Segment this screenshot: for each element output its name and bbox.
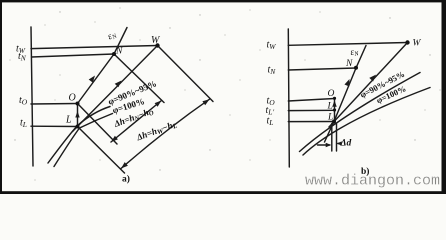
enthalpy line h_O from O [78, 104, 118, 145]
vertical line L to O [77, 104, 79, 127]
phi 90-95 curve (b) [300, 73, 421, 152]
wire t_W isotherm line to W [31, 46, 158, 49]
wire t_O isotherm line to O [31, 103, 78, 106]
point N dot (b) [354, 66, 358, 70]
delta-d right arrowhead [337, 141, 342, 145]
svg-text:tL: tL [267, 116, 274, 128]
dimension line dh=hW-hL [121, 99, 210, 168]
scan noise dots [9, 7, 440, 180]
svg-text:tN: tN [18, 51, 27, 63]
svg-text:tN: tN [268, 65, 277, 77]
arrowhead dim2 left [121, 162, 128, 168]
point O dot (b) [333, 97, 336, 100]
svg-text:www.diangon.com: www.diangon.com [305, 173, 440, 190]
wire W to L line [73, 46, 158, 132]
enthalpy line h_W from W [158, 46, 214, 102]
svg-text:L: L [327, 113, 333, 123]
svg-text:N: N [345, 59, 353, 69]
axis (vertical d-axis, diagram b) [288, 29, 289, 167]
delta-d right vertical [336, 124, 338, 152]
svg-text:L': L' [327, 102, 336, 112]
delta-d right arrow shaft [338, 143, 341, 145]
wire t_L' isotherm line to L' (b) [288, 109, 334, 111]
wire t_L isotherm line to L [31, 125, 78, 127]
delta-d left arrowhead [326, 143, 332, 147]
process line L to W (b) [329, 43, 408, 128]
arrow on O-N process line [89, 76, 95, 83]
svg-text:L: L [65, 115, 72, 126]
dimension line dh=hN-hO [111, 101, 162, 143]
svg-text:Δd: Δd [340, 139, 352, 149]
process line L to N extended (epsilon_N, b) [325, 46, 367, 143]
wire t_N isotherm line to N (b) [288, 68, 356, 70]
point L dot (a) [76, 125, 80, 129]
arrow on L-N line (b) [344, 79, 349, 87]
point W dot (b) [405, 40, 409, 44]
svg-text:tO: tO [19, 95, 28, 107]
svg-text:tL: tL [20, 118, 27, 130]
phi 100 curve (b) [303, 88, 430, 156]
arrow on L-W line (b) [369, 75, 376, 82]
phi 90-95 curve (a) [48, 107, 110, 164]
arrowhead dim2 right [202, 99, 209, 105]
arrow up on L-O vertical (b) [332, 100, 336, 107]
wire t_L isotherm line to L (b) [288, 121, 334, 123]
svg-text:N: N [115, 46, 123, 56]
point O dot (a) [76, 102, 80, 106]
enthalpy line h_L from L [78, 127, 125, 174]
delta-d left vertical [331, 124, 333, 152]
svg-text:tW: tW [267, 40, 277, 52]
svg-text:a): a) [122, 173, 130, 184]
process line O to N extended (epsilon_N direction) [78, 28, 128, 104]
arrow up on L-O vertical [75, 111, 79, 118]
point L dot (b) [332, 120, 336, 124]
wire t_W isotherm line to W (b) [288, 43, 407, 46]
delta-d left arrow shaft [318, 144, 330, 146]
vertical line L to O (b) [334, 98, 336, 122]
svg-text:O: O [328, 89, 335, 99]
phi 100 curve (a) [54, 114, 113, 167]
point L' dot (b) [333, 108, 336, 111]
wire t_O isotherm line to O (b) [288, 99, 334, 102]
svg-text:W: W [413, 39, 422, 49]
arrowhead dim1 left [111, 136, 118, 142]
wire t_N isotherm line to N [32, 54, 115, 57]
arrowhead dim1 right [155, 101, 162, 107]
enthalpy line h_N from N [114, 54, 164, 103]
arrow on L-W line (a) [115, 81, 122, 88]
axis (vertical d-axis, diagram a) [31, 27, 33, 166]
svg-text:O: O [69, 93, 76, 104]
svg-text:b): b) [361, 166, 369, 177]
point N dot (a) [112, 52, 116, 56]
point W dot (a) [155, 43, 159, 47]
